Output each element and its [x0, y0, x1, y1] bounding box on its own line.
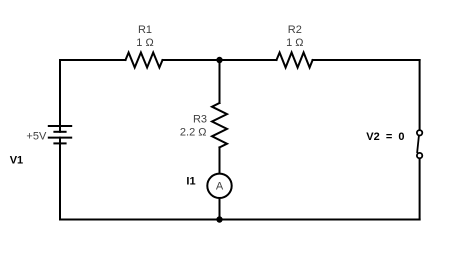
wire middle vertical between R3 and ammeter [219, 147, 221, 173]
svg-text:+5V: +5V [26, 131, 47, 143]
svg-text:V1: V1 [10, 155, 23, 167]
node junction bottom [216, 216, 222, 222]
svg-text:1 Ω: 1 Ω [286, 37, 303, 49]
battery V1 [49, 126, 71, 143]
svg-text:1 Ω: 1 Ω [136, 37, 153, 49]
wire left vertical upper [59, 60, 61, 132]
wire middle vertical upper [219, 60, 221, 103]
svg-text:I1: I1 [186, 175, 195, 187]
wire top-middle segment [163, 59, 277, 61]
switch V2 lever [417, 137, 419, 152]
resistor R2 [277, 53, 313, 68]
resistor R3 [212, 103, 227, 147]
svg-text:R1: R1 [138, 24, 152, 36]
wire middle vertical lower [219, 198, 221, 219]
svg-text:2.2 Ω: 2.2 Ω [180, 127, 207, 139]
node junction top [216, 57, 222, 63]
svg-text:R2: R2 [288, 24, 302, 36]
wire right vertical lower [419, 159, 421, 219]
switch V2 terminal top [417, 130, 422, 135]
wire right vertical upper [419, 60, 421, 129]
svg-text:V2 = 0: V2 = 0 [366, 131, 404, 143]
wire left vertical lower [59, 138, 61, 220]
svg-text:A: A [216, 180, 224, 192]
wire top-right segment [313, 59, 420, 61]
ammeter I1 [207, 174, 231, 198]
switch V2 terminal bottom [417, 153, 422, 158]
svg-text:R3: R3 [193, 113, 207, 125]
wire top-left segment [60, 59, 126, 61]
wire bottom segment [60, 219, 420, 221]
resistor R1 [126, 53, 163, 68]
